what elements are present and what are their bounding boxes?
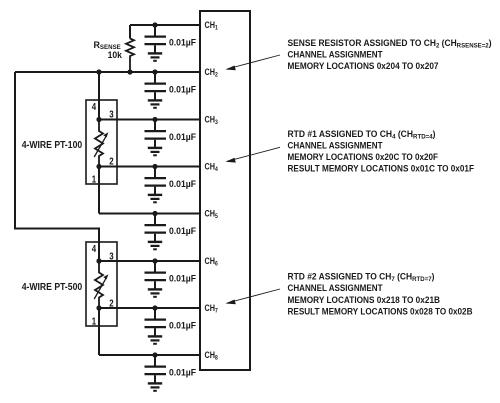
IC U1 box — [200, 11, 250, 370]
svg-text:RESULT MEMORY LOCATIONS 0x01C: RESULT MEMORY LOCATIONS 0x01C TO 0x01F — [288, 164, 475, 174]
svg-text:0.01µF: 0.01µF — [169, 367, 196, 378]
svg-text:1: 1 — [92, 315, 97, 327]
leader arrow to CH4 — [226, 147, 281, 162]
svg-text:4: 4 — [92, 101, 97, 113]
wire CH3 — [99, 119, 200, 121]
svg-text:CHANNEL ASSIGNMENT: CHANNEL ASSIGNMENT — [288, 50, 383, 60]
svg-text:0.01µF: 0.01µF — [169, 84, 196, 95]
wire CH6 — [99, 260, 200, 262]
capacitor C8 0.01uF — [145, 355, 167, 391]
svg-text:RESULT MEMORY LOCATIONS 0x028: RESULT MEMORY LOCATIONS 0x028 TO 0x02B — [288, 306, 473, 316]
junction RTD2 pin 3 — [96, 258, 101, 263]
svg-text:CHANNEL ASSIGNMENT: CHANNEL ASSIGNMENT — [288, 141, 383, 151]
junction RSENSE-CH2 — [127, 69, 132, 74]
capacitor C1 0.01uF — [145, 25, 167, 61]
note: CH2 sense resistor assignment — [288, 38, 492, 71]
note: CH7 RTD2 assignment — [288, 271, 473, 316]
note: CH4 RTD1 assignment — [288, 129, 475, 174]
wire RSENSE top lead — [129, 25, 131, 39]
junction CH7-C7 — [152, 305, 157, 310]
wire CH5 — [99, 213, 200, 215]
wire CH2 — [15, 71, 200, 73]
leader arrow to CH2 — [226, 55, 281, 70]
svg-text:0.01µF: 0.01µF — [169, 178, 196, 189]
capacitor C2 0.01uF — [145, 72, 167, 108]
capacitor C3 0.01uF — [145, 120, 167, 156]
wire CH7 — [99, 307, 200, 309]
capacitor C5 0.01uF — [145, 214, 167, 250]
svg-text:CHANNEL ASSIGNMENT: CHANNEL ASSIGNMENT — [288, 283, 383, 293]
junction CH2-C2 — [152, 69, 157, 74]
junction RTD2 pin 2 — [96, 305, 101, 310]
RTD1 arrow — [94, 132, 108, 157]
svg-text:0.01µF: 0.01µF — [169, 225, 196, 236]
leader arrow to CH7 — [226, 289, 281, 304]
wire PT-500 pin1 lead — [98, 308, 100, 355]
junction CH8-C8 — [152, 352, 157, 357]
svg-text:0.01µF: 0.01µF — [169, 273, 196, 284]
junction CH3-C3 — [152, 117, 157, 122]
svg-text:4-WIRE PT-100: 4-WIRE PT-100 — [22, 140, 83, 151]
wire CH8 — [99, 354, 200, 356]
capacitor C6 0.01uF — [145, 261, 167, 297]
wire CH4 — [99, 166, 200, 168]
junction RTD1 pin 3 — [96, 117, 101, 122]
junction CH5-C5 — [152, 211, 157, 216]
svg-text:0.01µF: 0.01µF — [169, 131, 196, 142]
PT-500 RTD body box — [86, 242, 117, 326]
capacitor C7 0.01uF — [145, 308, 167, 344]
PT-100 RTD body box — [86, 100, 117, 184]
resistor RTD1 zigzag — [95, 120, 103, 167]
junction CH4-C4 — [152, 164, 157, 169]
svg-text:4: 4 — [92, 243, 97, 255]
svg-text:2: 2 — [109, 155, 114, 167]
resistor RSENSE zigzag — [126, 39, 134, 73]
wire CH2 left vertical to PT-500 pin4 — [15, 72, 99, 261]
svg-text:2: 2 — [109, 297, 114, 309]
svg-text:3: 3 — [109, 250, 114, 262]
junction CH1-C1 — [152, 22, 157, 27]
resistor RTD2 zigzag — [95, 261, 103, 308]
svg-text:MEMORY LOCATIONS 0x20C TO 0x20: MEMORY LOCATIONS 0x20C TO 0x20F — [288, 152, 439, 162]
svg-text:0.01µF: 0.01µF — [169, 37, 196, 48]
svg-text:3: 3 — [109, 108, 114, 120]
capacitor C4 0.01uF — [145, 167, 167, 203]
RTD2 arrow — [94, 274, 108, 299]
svg-text:10k: 10k — [108, 49, 123, 60]
svg-text:0.01µF: 0.01µF — [169, 320, 196, 331]
wire CH1 — [130, 24, 200, 26]
junction RTD1 pin 2 — [96, 164, 101, 169]
svg-text:MEMORY LOCATIONS 0x218 TO 0x21: MEMORY LOCATIONS 0x218 TO 0x21B — [288, 295, 441, 305]
junction CH2-RTD1 pin 4 — [96, 69, 101, 74]
svg-text:MEMORY LOCATIONS 0x204 TO 0x20: MEMORY LOCATIONS 0x204 TO 0x207 — [288, 61, 439, 71]
junction CH6-C6 — [152, 258, 157, 263]
svg-text:1: 1 — [92, 173, 97, 185]
wire PT-100 pin4 lead — [98, 72, 100, 120]
wire PT-100 pin1 lead — [98, 167, 100, 214]
svg-text:4-WIRE PT-500: 4-WIRE PT-500 — [22, 282, 83, 293]
